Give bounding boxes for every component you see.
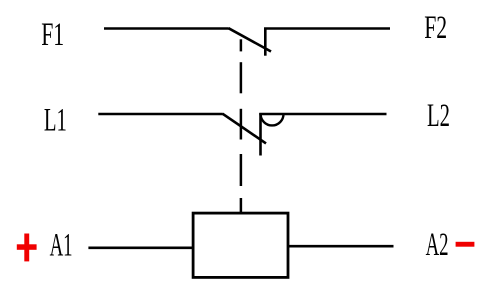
NC contact fixed bar — [264, 28, 267, 55]
wire contact to F2 — [264, 27, 390, 30]
wire F1 lead — [104, 27, 229, 30]
dash segment 2 — [240, 62, 243, 93]
dash segment 1 — [240, 39, 243, 51]
svg-text:F2: F2 — [424, 10, 447, 46]
coil K — [193, 213, 288, 277]
wire L1 lead — [98, 113, 223, 116]
polarity plus sign — [17, 234, 37, 262]
NO contact movable arm — [223, 114, 267, 144]
svg-text:L2: L2 — [427, 98, 450, 134]
dash segment 4 — [240, 154, 243, 186]
wire A1 to coil — [88, 247, 193, 250]
wire contact to L2 — [259, 113, 386, 116]
NC contact movable arm — [229, 28, 272, 51]
mechanical linkage dashed line — [240, 39, 243, 213]
NO contact fixed bar — [259, 113, 262, 156]
wire coil to A2 — [288, 245, 394, 248]
polarity minus sign — [456, 242, 475, 247]
svg-text:A1: A1 — [50, 228, 73, 264]
contactor function arc — [261, 114, 284, 125]
svg-text:A2: A2 — [426, 227, 449, 263]
dash segment 5 — [240, 198, 243, 214]
svg-text:F1: F1 — [41, 17, 64, 53]
dash segment 3 — [240, 109, 243, 140]
svg-text:L1: L1 — [44, 102, 67, 138]
